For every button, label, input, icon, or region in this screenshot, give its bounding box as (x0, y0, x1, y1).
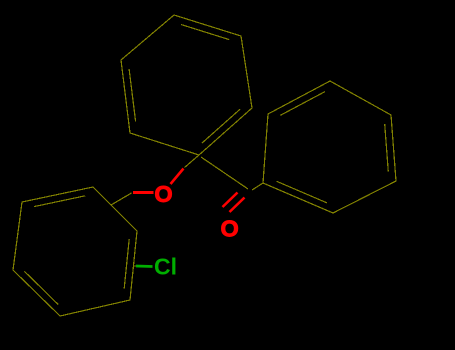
bond O-CH2, carbon half (111, 193, 132, 205)
benzene ring B (2-chlorophenyl, bottom left) (13, 187, 137, 316)
bond C(ring A)-O ether, oxygen half (red) (171, 169, 184, 185)
wire ring B inner double bond L2L3 (124, 239, 129, 289)
wire ring A inner double bond T3T4 (202, 109, 240, 143)
wire ring A inner double bond T5T6 (129, 69, 136, 122)
benzene ring C (right phenyl) (263, 81, 396, 213)
wire ring B inner double bond L6L1 (34, 196, 85, 207)
bond C(ring B)-Cl, chlorine half (green) (136, 265, 153, 268)
wire ring A inner double bond T1T2 (181, 25, 229, 40)
bond O-CH2, oxygen half (red) (133, 191, 154, 194)
wire ring A outline (121, 15, 252, 155)
svg-text:O: O (221, 216, 239, 242)
benzene ring A (top phenyl) (121, 15, 252, 155)
wire ring C inner double bond A2B2 (280, 92, 325, 116)
bond C carbonyl-ring C (252, 183, 263, 190)
carbonyl C=O double bond line 2 (red) (223, 193, 238, 208)
bond C(ring A)-C carbonyl (201, 157, 248, 189)
wire ring C inner double bond C2D2 (385, 124, 389, 172)
wire ring C inner double bond E2G (277, 181, 327, 203)
wire ring B inner double bond L4L5 (24, 271, 58, 304)
carbonyl C=O double bond line 1 (red) (230, 198, 245, 213)
svg-text:Cl: Cl (154, 254, 177, 280)
wire ring B outline (13, 187, 137, 316)
bond C(ring B)-Cl, carbon half (133, 265, 140, 267)
wire ring C outline (263, 81, 396, 213)
svg-text:O: O (154, 181, 172, 207)
bond C(ring A)-O ether, carbon half (185, 155, 200, 168)
